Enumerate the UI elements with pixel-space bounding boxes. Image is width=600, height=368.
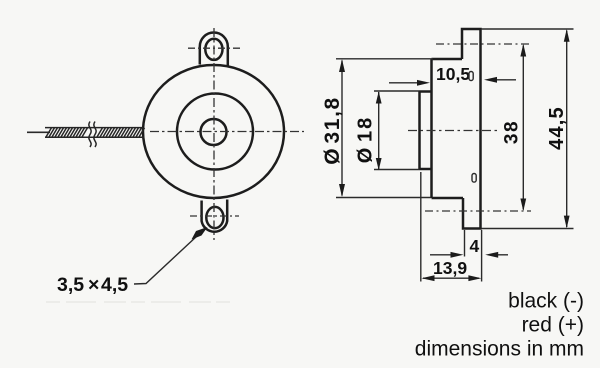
faint scan streak <box>46 301 233 303</box>
svg-text:3,5 × 4,5: 3,5 × 4,5 <box>57 274 128 296</box>
13.9 extension line <box>420 172 422 282</box>
body front face line <box>430 59 433 198</box>
dia 18 dimension line <box>378 92 380 170</box>
svg-text:38: 38 <box>502 120 523 144</box>
outer case circle <box>143 65 284 198</box>
4 left arrow <box>430 254 460 256</box>
13.9 dimension line <box>423 277 479 279</box>
bottom ear hole centerline side view <box>425 210 531 212</box>
4 right arrow <box>489 254 508 256</box>
top ear hole centerline side view <box>436 43 531 45</box>
body top and bottom edges <box>432 59 464 198</box>
44.5 extension lines <box>481 29 574 229</box>
svg-text:Ø 31,8: Ø 31,8 <box>321 96 344 165</box>
bottom ear hole centerline <box>190 215 239 217</box>
flange small slot mark lower <box>472 174 476 183</box>
small mark after 10.5 <box>469 72 473 81</box>
small cylinder front face <box>418 92 421 170</box>
svg-text:4: 4 <box>470 236 480 256</box>
10.5 left arrow <box>389 82 426 84</box>
middle circle <box>177 94 253 170</box>
svg-text:13,9: 13,9 <box>433 258 467 278</box>
small cylinder top/bottom edges <box>420 92 432 170</box>
top ear slot hole <box>205 39 222 60</box>
flange with ears profile <box>462 29 481 229</box>
vertical centerline front view <box>213 28 215 240</box>
side view horizontal centerline <box>408 130 499 132</box>
svg-text:black (-): black (-) <box>508 290 584 313</box>
leader arrowhead <box>192 227 208 240</box>
dia 18 arrowheads <box>376 91 382 103</box>
44.5 dimension line <box>566 31 568 228</box>
leader line for slot label <box>134 230 204 285</box>
twisted wire pair band <box>45 128 145 138</box>
inner circle <box>201 119 227 145</box>
dia 31.8 arrowheads <box>339 59 345 72</box>
top ear hole centerline <box>188 47 241 49</box>
svg-text:Ø 18: Ø 18 <box>355 116 377 163</box>
bottom mounting ear outline <box>202 200 228 232</box>
wire break symbol <box>89 122 91 148</box>
bottom ear slot hole <box>206 207 223 228</box>
top mounting ear outline <box>200 33 228 66</box>
wire lead thin tip <box>27 131 50 133</box>
4 extension lines <box>465 230 482 282</box>
44.5 arrowheads <box>564 29 570 42</box>
svg-text:10,5: 10,5 <box>436 64 470 84</box>
dia 31.8 extension lines <box>336 59 433 198</box>
horizontal centerline front view <box>150 131 304 133</box>
38 dimension line <box>522 46 524 210</box>
10.5 right arrow <box>488 79 516 81</box>
svg-text:red (+): red (+) <box>522 314 584 337</box>
13.9 arrowheads <box>422 275 435 281</box>
dia 31.8 dimension line <box>341 61 343 196</box>
svg-text:dimensions in mm: dimensions in mm <box>415 338 584 361</box>
svg-text:44,5: 44,5 <box>546 106 568 150</box>
38 arrowheads <box>520 44 526 57</box>
dia 18 extension lines <box>374 91 420 170</box>
